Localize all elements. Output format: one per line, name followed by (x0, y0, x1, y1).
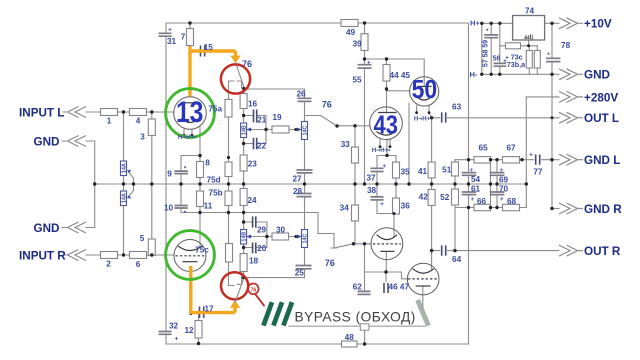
tube V1 lower cathode bar (380, 250, 394, 252)
junction reg rail3 top (498, 22, 501, 25)
svg-text:39: 39 (352, 39, 362, 48)
svg-text:13: 13 (176, 96, 204, 129)
svg-text:14C: 14C (303, 233, 309, 243)
svg-text:OUT R: OUT R (584, 245, 621, 258)
connector chevron GND R (559, 203, 583, 214)
tube VR grid dashed (176, 255, 205, 257)
wire 65 66 junction column (490, 160, 492, 208)
tube V50 envelope (410, 77, 439, 106)
capacitor C20 (253, 243, 256, 254)
svg-text:27: 27 (292, 174, 302, 183)
junction GNDL ground col (550, 158, 553, 161)
junction rail 6566 col (489, 182, 492, 185)
resistor R5 (148, 239, 155, 256)
tube V43 anode bar (378, 112, 397, 114)
junction GNDR bus (467, 206, 470, 209)
red annotation small circle 76 (248, 284, 259, 295)
trimmer 14B upper (241, 123, 247, 138)
wire cap38 column (376, 184, 378, 214)
junction reg rail3 bottom (498, 73, 501, 76)
wire left rail (165, 23, 167, 344)
capacitor C37 (371, 168, 384, 171)
junction input R R2 R6 (122, 253, 125, 256)
svg-text:20: 20 (257, 244, 267, 253)
resistor R49 (341, 20, 358, 27)
svg-text:35: 35 (400, 167, 410, 176)
wire reg cap column 3 (499, 23, 501, 74)
wire R8 stubs (199, 156, 201, 185)
svg-text:+: + (470, 196, 474, 203)
svg-text:18: 18 (249, 256, 259, 265)
junction rail R8 col (198, 182, 201, 185)
tube VR anode arc (178, 246, 202, 251)
capacitor C55 (358, 65, 372, 68)
trimmer arrowhead 14A upper (127, 170, 131, 173)
junction top rail R49 (363, 21, 366, 24)
trimmer 14C upper (302, 122, 308, 140)
junction R12 bottom rail (197, 342, 200, 345)
svg-text:51: 51 (442, 165, 452, 174)
resistor R30 (272, 233, 289, 240)
svg-text:19: 19 (272, 113, 282, 122)
capacitor C32 (159, 332, 172, 335)
tube V1 lower envelope (371, 228, 403, 260)
junction rail GND col (93, 182, 96, 185)
tube VR input envelope (174, 240, 206, 272)
junction OUTL ground col (551, 116, 554, 119)
wire jack prong feet lower (229, 268, 242, 286)
resistor R3 (148, 119, 155, 136)
resistor R75a (225, 100, 232, 118)
capacitor C56 (494, 63, 507, 66)
svg-text:H-•H+•: H-•H+• (178, 135, 196, 141)
junction caps2122 wiper (264, 128, 267, 131)
wire bypass underline (289, 325, 425, 327)
wire tube13 cathode pin (199, 127, 201, 156)
junction caps2920 wiper (265, 235, 268, 238)
wire cap21 taps (244, 116, 266, 144)
junction rail cap37 col (375, 182, 378, 185)
junction +10V cap78 (550, 22, 553, 25)
svg-text:H+: H+ (470, 19, 480, 28)
voltage regulator U74 box (513, 16, 545, 41)
capacitor C29 (253, 217, 256, 228)
wire cap69 cap70 column (496, 160, 498, 208)
highlighted orange signal path lower (189, 266, 235, 313)
wire reg cap column 2 (490, 23, 492, 74)
trimmer arrowhead 14C lower (297, 235, 302, 239)
junction R24 cap29 (242, 220, 245, 223)
svg-text:62: 62 (353, 282, 363, 291)
connector chevron OUT L (559, 112, 583, 123)
svg-text:14A: 14A (122, 193, 128, 203)
wire cap10 column (180, 184, 182, 213)
svg-text:50: 50 (412, 74, 438, 104)
switch C arm wire (235, 279, 244, 303)
junction anode node 43 (385, 87, 388, 90)
svg-text:14B: 14B (242, 125, 248, 135)
wire tube50 heater pins (417, 106, 429, 113)
wire R41 R42 column (431, 118, 433, 251)
resistor R39 (361, 34, 368, 51)
svg-text:31: 31 (167, 37, 177, 46)
wire GND input column (94, 141, 96, 228)
resistor R2 (101, 252, 118, 259)
resistor R36 (393, 198, 400, 214)
trimmer 14C lower (302, 230, 308, 248)
junction rail R23 col (242, 182, 245, 185)
svg-text:55: 55 (352, 76, 362, 85)
resistor R75d (225, 162, 232, 177)
svg-text:15: 15 (204, 43, 214, 52)
capacitor C22 (254, 138, 257, 150)
wire row R18 bottom to cap25 (244, 277, 305, 279)
junction GND cap78 (550, 73, 553, 76)
junction heater pin 50b (428, 111, 431, 114)
connector chevron OUT R (559, 245, 583, 256)
connector chevron +280V (559, 91, 583, 102)
svg-text:21: 21 (257, 116, 267, 125)
wire cap46 stub (385, 272, 387, 282)
connector chevron GND L (559, 154, 583, 165)
wire GND R row left (455, 207, 526, 209)
trimmer arrowhead 14B lower (247, 235, 252, 239)
resistor R7 (187, 29, 194, 46)
junction heater pin 43b (389, 145, 392, 148)
svg-text:38: 38 (367, 186, 377, 195)
wire row under R36 (377, 213, 396, 215)
junction switch D node (352, 242, 355, 245)
resistor R1 (101, 109, 118, 116)
wire bottom rail (166, 343, 469, 345)
svg-text:33: 33 (341, 140, 351, 149)
wire R44 anode column (386, 59, 388, 112)
junction 75 col mid (227, 156, 230, 159)
wire R12 stubs (198, 314, 200, 344)
capacitor C26 (298, 98, 312, 101)
wire tube13 heater pins (184, 130, 192, 136)
svg-text:12: 12 (184, 326, 194, 335)
wire node to cap62 and tube grid row (354, 244, 409, 292)
resistor R35 (393, 162, 400, 178)
capacitor C46 C47 (384, 283, 388, 293)
junction top rail R7 (188, 21, 191, 24)
junction adj node (527, 44, 530, 47)
wire cathode node to cap9 (181, 156, 200, 185)
resistor R51 (452, 162, 459, 176)
wire tube2-low anode pin (431, 251, 433, 271)
junction row212 R11 (198, 211, 201, 214)
svg-text:74: 74 (525, 6, 535, 15)
junction reg rail2 top (490, 22, 493, 25)
junction GNDL 6566 (489, 158, 492, 161)
junction heater pin 13b (191, 134, 194, 137)
svg-text:adj: adj (524, 34, 533, 41)
resistor R73b (526, 51, 532, 69)
svg-text:36: 36 (401, 201, 411, 210)
wire wiper row lower (247, 236, 301, 238)
junction 14B cap20 (242, 246, 245, 249)
capacitor C21 (254, 110, 257, 123)
svg-text:+280V: +280V (584, 91, 618, 104)
junction rail main bus (467, 182, 470, 185)
wire R33 R34 column (354, 126, 356, 244)
junction wiper row lower 14C side (294, 235, 297, 238)
junction input R R6 right (150, 253, 153, 256)
resistor R68 (503, 204, 520, 210)
svg-text:22: 22 (257, 141, 267, 150)
wire INPUT L row (63, 111, 174, 113)
junction OUT R R52 (453, 249, 456, 252)
wire tube43 heater pins (380, 140, 390, 147)
junction rail R51 col (453, 182, 456, 185)
junction row212 R24 (242, 211, 245, 214)
svg-text:10: 10 (164, 203, 174, 212)
junction orange corner (189, 312, 192, 315)
capacitor C25 (296, 266, 312, 269)
green highlight circle tubeR (166, 231, 215, 280)
junction GNDL cap69 (495, 158, 498, 161)
resistor R75c (226, 244, 233, 263)
wire GND L row (455, 159, 559, 161)
junction GNDR cap70 (495, 206, 498, 209)
svg-text:76: 76 (242, 59, 252, 69)
svg-text:76: 76 (251, 287, 257, 293)
trimmer arrowhead 14B upper (247, 128, 252, 132)
svg-text:77: 77 (533, 167, 543, 176)
connector chevron GND upper (68, 136, 87, 147)
junction reg rail2 bottom (490, 73, 493, 76)
svg-text:56: 56 (493, 55, 501, 62)
wire grid line to tube50 (387, 90, 410, 92)
connector chevron GND lower (68, 222, 87, 233)
svg-text:65: 65 (478, 143, 488, 152)
svg-text:7: 7 (181, 33, 186, 42)
wire 73b 73a stubs (529, 46, 537, 75)
junction GNDR 6566 (489, 206, 492, 209)
svg-text:+10V: +10V (584, 18, 612, 31)
junction GNDR ground col (550, 207, 553, 210)
wire R11 stubs (199, 184, 201, 213)
svg-text:H-: H- (470, 70, 478, 79)
svg-text:75b: 75b (209, 188, 223, 197)
wire wiper row upper (247, 129, 301, 131)
svg-text:78: 78 (561, 41, 571, 50)
svg-text:OUT L: OUT L (584, 112, 619, 125)
wire switch A arm (236, 63, 244, 87)
wire +10V row (545, 22, 559, 24)
wire tube43 cathode row (377, 140, 396, 156)
capacitor C78 (546, 58, 560, 61)
wire cap26 14C cap27 cap28 25 column (304, 89, 306, 278)
wire grid row tube43 (337, 125, 370, 127)
svg-text:76: 76 (322, 99, 332, 109)
junction rail R3 col (150, 182, 153, 185)
svg-text:5: 5 (140, 234, 145, 243)
svg-text:24: 24 (247, 196, 257, 205)
svg-text:+: + (469, 167, 473, 174)
svg-text:GND: GND (584, 69, 610, 82)
junction switch B node (335, 124, 338, 127)
svg-text:28: 28 (293, 187, 303, 196)
resistor R33 (352, 147, 359, 163)
red highlight circle switch A (221, 64, 250, 93)
junction rail R41 col (430, 182, 433, 185)
wire adj row (500, 45, 538, 47)
connector chevron +10V (559, 18, 583, 29)
svg-text:73b,a: 73b,a (507, 60, 526, 69)
junction input L R4 right (150, 110, 153, 113)
wire R51 R52 column (454, 160, 456, 251)
svg-text:66: 66 (477, 197, 487, 206)
capacitor C77 (536, 154, 540, 164)
capacitor C63 (442, 112, 446, 122)
wire node row 89 to cap26 column (244, 88, 305, 90)
capacitor C62 (358, 291, 371, 294)
svg-text:61: 61 (471, 185, 481, 194)
tube V2 lower envelope (407, 263, 439, 295)
wire tube50 left pin to rail (408, 104, 410, 185)
resistor R24 (240, 189, 247, 206)
trimmer 14B lower (241, 230, 247, 245)
capacitor C69 (490, 173, 505, 176)
resistor R73c (506, 43, 521, 49)
tube V13 anode bar (182, 102, 198, 104)
svg-text:6: 6 (136, 260, 141, 269)
svg-text:+: + (367, 60, 371, 67)
svg-text:54: 54 (471, 175, 481, 184)
wire +280V row (526, 96, 559, 98)
resistor R19 (272, 126, 289, 133)
svg-text:1: 1 (107, 117, 112, 126)
svg-text:+: + (175, 335, 179, 342)
junction OUT L cap63 (430, 116, 433, 119)
junction GNDL bus (467, 158, 470, 161)
wire switch B fixed contact (305, 115, 321, 117)
svg-text:16: 16 (248, 99, 258, 108)
wire INPUT R row (63, 254, 174, 256)
resistor R66 (474, 204, 491, 210)
resistor R41 (428, 162, 435, 178)
junction cathode node 13 (198, 154, 201, 157)
svg-text:14A: 14A (122, 163, 128, 173)
svg-text:75a: 75a (208, 105, 222, 114)
wire GND R stub left (62, 227, 95, 229)
svg-text:INPUT L: INPUT L (19, 106, 64, 119)
svg-text:H-•H+•: H-•H+• (372, 148, 390, 154)
wire switch D staircase (318, 213, 337, 249)
junction R18 bottom (242, 276, 245, 279)
wire right main vertical bus (468, 23, 470, 344)
svg-text:14B: 14B (242, 232, 248, 242)
resistor R65 (474, 157, 491, 163)
junction rail 14A col (122, 182, 125, 185)
wire +280V drop column (525, 97, 527, 208)
capacitor C64 (442, 245, 446, 255)
resistor R8 (197, 162, 204, 178)
svg-text:43: 43 (374, 110, 399, 140)
svg-text:11: 11 (204, 201, 213, 210)
svg-text:BYPASS (ОБХОД): BYPASS (ОБХОД) (295, 310, 416, 325)
svg-text:4: 4 (136, 117, 141, 126)
wire R3 R5 column (151, 112, 153, 256)
orange arrowhead upper (230, 56, 240, 64)
svg-text:34: 34 (340, 203, 350, 212)
junction cathode node lower (384, 270, 387, 273)
junction reg rail1 bottom (480, 73, 483, 76)
connector chevron INPUT L (68, 107, 87, 118)
svg-text:GND: GND (34, 222, 60, 235)
svg-text:3: 3 (140, 133, 145, 142)
wire R39 cap55 column (364, 23, 366, 184)
wire GND L stub left (62, 140, 95, 142)
svg-text:70: 70 (499, 184, 509, 193)
tube V2 lower cathode bar (416, 285, 431, 287)
junction rail 280 col (525, 182, 528, 185)
junction R16 cap21 (242, 114, 245, 117)
junction rail cap9 col (179, 182, 182, 185)
svg-text:23: 23 (248, 159, 258, 168)
junction rail R33 col (353, 182, 356, 185)
tube V50 anode bar (417, 85, 432, 87)
junction rail cap55 col (363, 182, 366, 185)
junction rail tube50 col (407, 182, 410, 185)
junction row212 75b (227, 211, 230, 214)
svg-text:+: + (168, 27, 172, 34)
junction OUT R R42 (430, 249, 433, 252)
junction heater pin 50a (415, 111, 418, 114)
capacitor C17 (200, 307, 204, 319)
resistor R4 (130, 109, 147, 116)
resistor R73a (534, 51, 540, 69)
resistor R6 (130, 252, 147, 259)
junction bypass stub rail (363, 342, 366, 345)
svg-text:GND L: GND L (584, 154, 620, 167)
resistor R52 (452, 189, 459, 205)
wire cap29 cap20 taps (244, 222, 267, 248)
wire mid cathode bus (rail 184) (95, 183, 527, 185)
svg-text:67: 67 (506, 143, 516, 152)
junction rail R35 col (394, 182, 397, 185)
capacitor C27 (297, 170, 313, 173)
svg-text:57 58 59: 57 58 59 (483, 40, 490, 67)
red highlight circle switch C (221, 272, 248, 299)
junction heater pin 43a (379, 145, 382, 148)
svg-text:+: + (499, 167, 503, 174)
capacitor C38 (371, 197, 384, 200)
svg-text:32: 32 (169, 322, 179, 331)
svg-text:63: 63 (452, 103, 462, 112)
connector chevron GND right (559, 69, 583, 80)
junction anode pin lower (393, 212, 396, 215)
svg-text:46 47: 46 47 (389, 282, 410, 291)
trimmer arrowhead 14C upper (297, 128, 302, 132)
svg-text:GND R: GND R (584, 203, 622, 216)
svg-text:8: 8 (205, 158, 210, 167)
capacitor C28 (297, 194, 312, 197)
wire OUT L row (432, 117, 559, 119)
svg-text:+: + (380, 201, 384, 208)
wire box74 adj pin (528, 40, 530, 46)
wire tube50 cathode bend (429, 113, 432, 118)
svg-text:17: 17 (204, 305, 214, 314)
junction switch A node (242, 87, 245, 90)
svg-text:75c: 75c (195, 245, 209, 254)
highlighted orange signal path upper (188, 46, 235, 97)
tube V43 envelope (370, 107, 403, 140)
svg-text:29: 29 (257, 225, 267, 234)
wire tube2-low bottom pin (422, 287, 424, 310)
